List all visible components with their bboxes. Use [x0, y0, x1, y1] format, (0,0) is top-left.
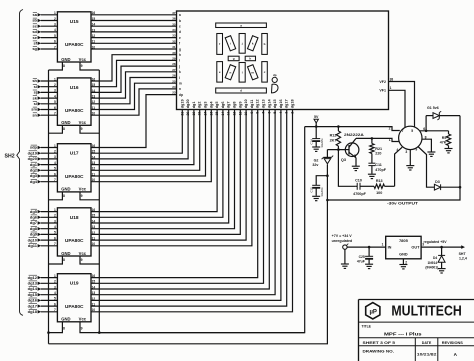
- svg-text:sdp: sdp: [30, 145, 38, 150]
- wire -30v bus left vertical (GND pins): [48, 70, 50, 344]
- wire Q3 collector to transformer pin 1: [356, 138, 399, 141]
- svg-text:UPA80C: UPA80C: [65, 304, 84, 309]
- svg-text:16: 16: [92, 144, 96, 148]
- svg-text:3: 3: [54, 89, 56, 93]
- svg-text:12: 12: [92, 231, 96, 235]
- svg-text:b: b: [264, 42, 266, 46]
- svg-text:5: 5: [54, 100, 56, 104]
- svg-text:1: 1: [54, 77, 56, 81]
- svg-text:14: 14: [92, 23, 96, 27]
- svg-text:1: 1: [54, 208, 56, 212]
- svg-text:sc: sc: [33, 23, 38, 28]
- svg-text:1: 1: [54, 144, 56, 148]
- input signal sm to U16 pin 6: [31, 106, 57, 112]
- svg-text:R13: R13: [376, 179, 383, 183]
- svg-text:dg20: dg20: [186, 99, 190, 108]
- wire digit from U18 pin 14 to display bottom: [91, 110, 229, 224]
- junction Vcc bus bottom: [98, 331, 101, 334]
- svg-text:10: 10: [92, 308, 96, 312]
- svg-text:U15: U15: [70, 19, 79, 25]
- input signal dg10 to U18 pin 6: [28, 236, 58, 242]
- input signal dg1 to U17 pin 4: [30, 161, 58, 167]
- title block frame: [359, 300, 474, 361]
- svg-text:sk: sk: [33, 95, 38, 100]
- svg-text:R21: R21: [375, 147, 382, 151]
- svg-text:12: 12: [92, 100, 96, 104]
- U17 Vcc pin 9 wire to right bus: [80, 192, 99, 200]
- svg-text:sl: sl: [34, 101, 37, 106]
- svg-text:11: 11: [92, 106, 96, 110]
- svg-text:37: 37: [172, 11, 176, 15]
- input signal dg3 to U17 pin 6: [30, 172, 58, 178]
- wire digit dg3 from U17 pin 13 to display bottom: [91, 110, 194, 166]
- input signal sc to U15 pin 3: [33, 23, 58, 29]
- U19 GND pin 8 wire to left bus: [49, 322, 66, 333]
- svg-text:15: 15: [92, 214, 96, 218]
- svg-text:dg17: dg17: [285, 99, 289, 108]
- wire 5V rail: [305, 127, 400, 131]
- U16 Vcc pin 9 wire to right bus: [80, 125, 99, 133]
- svg-text:10: 10: [92, 242, 96, 246]
- svg-text:2N2222A: 2N2222A: [344, 133, 364, 137]
- input signal dg16 to U19 pin 5: [28, 297, 58, 303]
- input signal dg11 to U18 pin 7: [28, 242, 58, 248]
- wire digit dg2 from U17 pin 14 to display bottom: [91, 110, 188, 160]
- display bottom pin 6 digit dg14: [267, 99, 271, 114]
- svg-text:5: 5: [54, 231, 56, 235]
- svg-text:UPA80C: UPA80C: [65, 42, 84, 47]
- ground 7805: [399, 265, 407, 269]
- svg-text:16: 16: [209, 112, 213, 116]
- svg-text:U17: U17: [70, 151, 79, 157]
- svg-text:dg3: dg3: [204, 102, 208, 109]
- wire d segment from U15 pin 13 to display: [91, 28, 177, 32]
- svg-text:5V: 5V: [314, 115, 319, 119]
- svg-text:dg13: dg13: [262, 99, 266, 108]
- svg-text:13: 13: [92, 291, 96, 295]
- zener diode G2 32v: [312, 150, 333, 176]
- wire f segment from U15 pin 11 to display: [91, 40, 177, 44]
- wire i segment from U16 pin 15 to display: [91, 60, 177, 87]
- svg-text:n: n: [179, 87, 181, 91]
- svg-text:7805: 7805: [399, 238, 409, 243]
- wire input connector to ground: [344, 249, 346, 263]
- display segment a: [216, 23, 267, 28]
- svg-text:2: 2: [54, 17, 56, 21]
- svg-text:8: 8: [63, 64, 65, 68]
- display pin 32 segment f: [172, 39, 181, 45]
- svg-text:dg16: dg16: [28, 298, 38, 303]
- svg-text:9: 9: [81, 258, 83, 262]
- ground D4: [438, 269, 446, 273]
- svg-text:sh: sh: [32, 78, 37, 83]
- title MPF-I Plus: [362, 325, 423, 337]
- wire bottom Vcc return rail: [99, 127, 304, 333]
- svg-text:C25: C25: [359, 255, 365, 259]
- svg-text:Vcc: Vcc: [79, 57, 87, 62]
- svg-text:11: 11: [238, 112, 242, 116]
- svg-text:si: si: [34, 84, 37, 89]
- svg-text:32v: 32v: [312, 163, 318, 167]
- svg-text:a: a: [179, 13, 181, 17]
- svg-text:3: 3: [54, 155, 56, 159]
- svg-text:U19: U19: [70, 281, 79, 287]
- display bottom pin 2 digit dg18: [291, 99, 295, 113]
- display bottom pin 14 digit dg6: [221, 102, 225, 116]
- svg-text:j: j: [178, 64, 180, 68]
- svg-text:9: 9: [81, 327, 83, 331]
- svg-text:C14: C14: [310, 139, 314, 145]
- svg-text:IN: IN: [388, 246, 392, 250]
- U17 GND pin 8 wire to left bus: [49, 192, 66, 200]
- display bottom pin 20 digit dg20: [186, 99, 190, 115]
- svg-text:sg: sg: [32, 46, 37, 51]
- wire j segment from U16 pin 14 to display: [91, 66, 177, 93]
- svg-text:3: 3: [285, 112, 289, 114]
- svg-text:dg2: dg2: [30, 168, 38, 173]
- display segment d: [216, 88, 267, 93]
- wire R13 to transformer pin 4: [395, 147, 403, 186]
- svg-text:l: l: [179, 76, 180, 80]
- svg-text:dg6: dg6: [30, 215, 38, 220]
- display bottom pin 10 digit dg10: [244, 99, 248, 115]
- svg-text:dg14: dg14: [267, 99, 271, 109]
- svg-text:13: 13: [92, 95, 96, 99]
- display bottom pin 11 digit dg9: [238, 102, 242, 116]
- svg-text:16: 16: [92, 274, 96, 278]
- wire zener chain down: [326, 176, 328, 200]
- svg-text:33u/50v: 33u/50v: [320, 187, 324, 197]
- svg-text:18: 18: [198, 112, 202, 116]
- svg-text:14: 14: [92, 285, 96, 289]
- wire a segment from U15 pin 16 to display: [91, 11, 177, 15]
- svg-text:2K7: 2K7: [330, 138, 337, 142]
- svg-text:dg17: dg17: [28, 303, 38, 308]
- svg-text:dg18: dg18: [28, 309, 38, 314]
- input signal sk to U16 pin 4: [33, 94, 58, 100]
- svg-text:se: se: [33, 35, 38, 40]
- svg-text:35: 35: [172, 22, 176, 26]
- svg-text:R5: R5: [442, 136, 447, 140]
- diode D3: [434, 180, 460, 190]
- display bottom pin 21 digit dg19: [180, 99, 184, 115]
- svg-text:4: 4: [279, 112, 283, 114]
- svg-text:11: 11: [92, 40, 96, 44]
- driver IC U16 UPA80C: [57, 78, 91, 125]
- display segment e: [217, 62, 223, 83]
- svg-text:g: g: [233, 56, 235, 60]
- svg-text:13: 13: [92, 225, 96, 229]
- wire digit dg5 from U17 pin 11 to display bottom: [91, 110, 206, 177]
- svg-text:Vcc: Vcc: [79, 187, 87, 192]
- svg-text:D4: D4: [433, 256, 437, 260]
- junction R12 base: [337, 148, 340, 151]
- svg-text:2: 2: [291, 112, 295, 114]
- svg-text:15: 15: [215, 112, 219, 116]
- display segment k: [248, 36, 258, 51]
- wire Q3 base line: [327, 149, 345, 151]
- svg-text:26: 26: [172, 74, 176, 78]
- svg-text:10: 10: [92, 45, 96, 49]
- svg-text:7: 7: [54, 45, 56, 49]
- svg-text:6: 6: [54, 40, 56, 44]
- svg-text:D3: D3: [435, 180, 440, 184]
- svg-text:dg7: dg7: [227, 102, 231, 109]
- svg-text:10: 10: [244, 112, 248, 116]
- svg-text:38: 38: [390, 77, 394, 81]
- display bottom pin 7 digit dg13: [262, 99, 266, 113]
- svg-text:sb: sb: [32, 18, 37, 23]
- svg-text:23: 23: [172, 91, 176, 95]
- svg-text:dg7: dg7: [30, 220, 38, 225]
- MULTITECH logo hexagon: [366, 303, 380, 319]
- svg-text:TITLE: TITLE: [362, 325, 372, 329]
- wire bottom -30v return rail: [49, 200, 328, 344]
- svg-text:33: 33: [172, 34, 176, 38]
- input signal se to U15 pin 5: [33, 34, 58, 40]
- U16 GND pin 8 wire to left bus: [49, 125, 66, 133]
- svg-text:dg4: dg4: [209, 101, 213, 109]
- svg-text:4: 4: [396, 148, 398, 152]
- svg-text:dg2: dg2: [198, 102, 202, 109]
- svg-text:5: 5: [54, 34, 56, 38]
- svg-text:g: g: [179, 47, 181, 51]
- VFD display module outline: [177, 11, 389, 110]
- display segment b: [262, 34, 268, 55]
- svg-text:3: 3: [54, 285, 56, 289]
- svg-text:4: 4: [54, 161, 56, 165]
- svg-text:2: 2: [54, 150, 56, 154]
- display bottom pin 16 digit dg4: [209, 101, 213, 116]
- svg-text:10: 10: [92, 112, 96, 116]
- wire digit from U19 pin 12 to display bottom: [91, 110, 281, 301]
- svg-text:SHT: SHT: [459, 252, 467, 256]
- svg-text:b: b: [179, 19, 181, 23]
- svg-text:Q3: Q3: [341, 158, 346, 162]
- svg-text:12: 12: [92, 297, 96, 301]
- svg-text:16: 16: [92, 208, 96, 212]
- capacitor C14 33u/35v: [310, 127, 324, 148]
- svg-text:7: 7: [54, 308, 56, 312]
- wire digit from U19 pin 15 to display bottom: [91, 110, 264, 284]
- svg-text:6: 6: [54, 106, 56, 110]
- display bottom pin 18 digit dg2: [198, 102, 202, 116]
- svg-text:UPA80C: UPA80C: [65, 238, 84, 243]
- svg-text:dg19: dg19: [28, 150, 38, 155]
- wire digit from U18 pin 12 to display bottom: [91, 110, 240, 235]
- wire digit dg1 from U17 pin 15 to display bottom: [91, 110, 182, 154]
- svg-text:1: 1: [389, 138, 391, 142]
- svg-text:dg3: dg3: [30, 173, 38, 178]
- display segment dp: [272, 73, 279, 93]
- junction 5V rail C14 tap: [315, 125, 318, 128]
- svg-text:dg10: dg10: [28, 237, 38, 242]
- wire digit from U19 pin 16 to display bottom: [91, 110, 258, 279]
- svg-text:1: 1: [382, 243, 384, 247]
- input signal dg2 to U17 pin 5: [30, 167, 58, 173]
- input signal dg15 to U19 pin 4: [28, 291, 58, 297]
- svg-text:MULTITECH: MULTITECH: [391, 304, 461, 320]
- input signal dg18 to U19 pin 7: [28, 308, 58, 314]
- svg-text:GND: GND: [399, 252, 408, 256]
- display pin 38 VF2: [379, 77, 414, 127]
- wire e segment from U15 pin 12 to display: [91, 34, 177, 38]
- svg-text:dg13: dg13: [28, 281, 38, 286]
- svg-text:14: 14: [92, 155, 96, 159]
- diode D4 1N914 (IN4001): [425, 247, 445, 270]
- wire m segment from U16 pin 11 to display: [91, 83, 177, 110]
- svg-text:dg8: dg8: [30, 226, 38, 231]
- capacitor C10 4700pF: [353, 179, 374, 196]
- svg-text:10: 10: [92, 178, 96, 182]
- display bottom pin 12 digit dg8: [233, 102, 237, 116]
- zener diode G1 5v6: [426, 106, 460, 131]
- display bottom pin 19 digit dg1: [192, 102, 196, 116]
- svg-text:sm: sm: [31, 107, 37, 112]
- wire digit from U18 pin 13 to display bottom: [91, 110, 235, 230]
- svg-text:5: 5: [411, 129, 413, 133]
- svg-text:7: 7: [402, 129, 404, 133]
- svg-text:5: 5: [54, 297, 56, 301]
- svg-text:dg9: dg9: [238, 102, 242, 109]
- svg-text:e: e: [179, 36, 181, 40]
- wire dp segment from U17 pin 16 to display: [91, 95, 177, 148]
- sheet row: [363, 341, 463, 345]
- driver IC U17 UPA80C: [57, 144, 91, 192]
- node -30v OUTPUT label: [387, 201, 419, 206]
- svg-text:47uF: 47uF: [357, 259, 365, 263]
- display segment g: [228, 56, 239, 61]
- svg-text:27: 27: [172, 68, 176, 72]
- svg-text:29: 29: [172, 57, 176, 61]
- transformer T1 oscillator: [389, 126, 427, 154]
- svg-text:11: 11: [92, 172, 96, 176]
- svg-text:6: 6: [54, 302, 56, 306]
- svg-text:30: 30: [172, 51, 176, 55]
- display bottom pin 13 digit dg7: [227, 102, 231, 116]
- wire digit from U18 pin 11 to display bottom: [91, 110, 246, 241]
- svg-text:15: 15: [92, 17, 96, 21]
- junction D4 tap: [440, 246, 443, 249]
- svg-text:10/21/82: 10/21/82: [417, 351, 438, 356]
- svg-text:13: 13: [227, 112, 231, 116]
- svg-text:2: 2: [54, 83, 56, 87]
- input signal si to U16 pin 2: [33, 83, 58, 89]
- input signal dg20 to U17 pin 3: [28, 155, 58, 161]
- svg-text:sa: sa: [33, 12, 38, 17]
- svg-text:1: 1: [54, 11, 56, 15]
- svg-text:C15: C15: [310, 187, 314, 193]
- display pin 23 segment dp: [172, 91, 183, 97]
- svg-text:j: j: [241, 41, 243, 45]
- input signal dg5 to U18 pin 1: [30, 208, 58, 214]
- input signal sdp to U17 pin 1: [30, 144, 58, 150]
- resistor R12 2K7: [330, 127, 341, 150]
- svg-text:14: 14: [221, 112, 225, 116]
- svg-text:15: 15: [92, 83, 96, 87]
- display pin 31 segment g: [172, 45, 181, 51]
- junction G2 C15 tap: [326, 174, 329, 177]
- display pin 25 segment m: [172, 79, 182, 85]
- svg-text:sn: sn: [32, 112, 37, 117]
- svg-text:U18: U18: [70, 215, 79, 221]
- display pin 27 segment k: [172, 68, 181, 74]
- svg-text:h: h: [249, 56, 251, 60]
- svg-text:OUT: OUT: [411, 246, 420, 250]
- svg-text:UPA80C: UPA80C: [65, 108, 84, 113]
- svg-text:GND: GND: [61, 251, 70, 256]
- svg-text:14: 14: [92, 89, 96, 93]
- input signal dg19 to U17 pin 2: [28, 150, 58, 156]
- svg-text:9: 9: [81, 194, 83, 198]
- wire h segment from U16 pin 16 to display: [91, 55, 177, 82]
- resistor R21 220: [370, 138, 382, 163]
- junction 5V rail R12 tap: [337, 125, 340, 128]
- node +7V unregulated input: [332, 234, 353, 249]
- svg-text:dg8: dg8: [233, 102, 237, 109]
- svg-text:12: 12: [92, 34, 96, 38]
- svg-text:20: 20: [186, 112, 190, 116]
- svg-text:i: i: [179, 59, 180, 63]
- svg-text:11: 11: [92, 237, 96, 241]
- svg-text:6: 6: [267, 112, 271, 114]
- U15 Vcc pin 9 wire to right bus: [80, 62, 99, 70]
- svg-text:16: 16: [92, 11, 96, 15]
- wire digit from U18 pin 10 to display bottom: [91, 110, 252, 247]
- wire transformer pin 9 to D3: [418, 147, 435, 188]
- wire Q3 emitter to ground: [355, 158, 357, 166]
- svg-text:dg6: dg6: [221, 102, 225, 109]
- ground C11: [368, 174, 376, 178]
- wire Vcc bus right vertical: [98, 70, 100, 333]
- wire digit from U18 pin 15 to display bottom: [91, 110, 223, 218]
- display pin 30 segment h: [172, 51, 181, 57]
- wire 7805 GND to ground: [402, 259, 404, 265]
- display segment j: [239, 34, 245, 54]
- svg-text:4: 4: [54, 225, 56, 229]
- svg-text:SH2: SH2: [5, 154, 15, 160]
- capacitor C25 47uF: [357, 247, 373, 264]
- svg-text:-30v OUTPUT: -30v OUTPUT: [387, 201, 419, 206]
- svg-text:1: 1: [390, 86, 392, 90]
- drawing number row: [363, 350, 458, 357]
- svg-text:9: 9: [81, 64, 83, 68]
- svg-text:dg11: dg11: [250, 100, 254, 109]
- svg-text:7: 7: [54, 178, 56, 182]
- display pin 34 segment d: [172, 28, 181, 34]
- svg-text:4: 4: [54, 28, 56, 32]
- svg-text:dg1: dg1: [30, 162, 38, 167]
- svg-text:5: 5: [273, 112, 277, 114]
- U19 Vcc pin 9 wire to right bus: [80, 322, 305, 333]
- svg-text:DATE: DATE: [422, 341, 432, 345]
- svg-text:dg12: dg12: [28, 275, 38, 280]
- svg-text:7: 7: [262, 112, 266, 114]
- display pin 28 segment j: [172, 62, 180, 68]
- display bottom pin 4 digit dg16: [279, 99, 283, 113]
- input signal sh to U16 pin 1: [32, 77, 57, 83]
- svg-text:12: 12: [233, 112, 237, 116]
- junction pin6 G1: [425, 130, 428, 133]
- wire digit dg4 from U17 pin 12 to display bottom: [91, 110, 200, 171]
- junction C25 tap: [368, 246, 371, 249]
- svg-text:47K: 47K: [440, 141, 447, 145]
- svg-text:5: 5: [54, 167, 56, 171]
- display pin 29 segment i: [172, 57, 180, 63]
- regulator U20 7805: [382, 236, 425, 264]
- svg-text:2: 2: [389, 127, 391, 131]
- svg-text:19: 19: [192, 112, 196, 116]
